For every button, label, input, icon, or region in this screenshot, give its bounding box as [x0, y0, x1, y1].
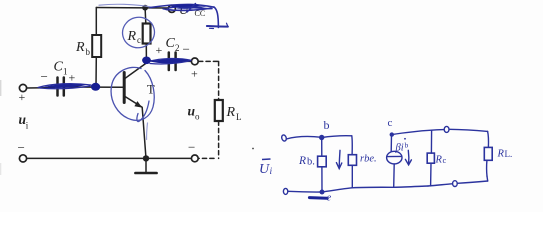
svg-text:C: C — [166, 36, 176, 51]
svg-text:b.: b. — [307, 157, 315, 168]
svg-text:R: R — [435, 155, 443, 166]
svg-text:+: + — [156, 43, 163, 57]
svg-text:c: c — [137, 35, 141, 45]
svg-text:+: + — [191, 67, 198, 81]
svg-text:+: + — [69, 71, 76, 85]
svg-text:o: o — [195, 112, 200, 122]
svg-text:−: − — [183, 42, 190, 57]
svg-text:2: 2 — [175, 43, 180, 53]
svg-text:−: − — [41, 69, 48, 84]
svg-text:R: R — [497, 149, 505, 160]
svg-text:−: − — [18, 140, 25, 155]
svg-text:−: − — [188, 140, 195, 155]
svg-text:C: C — [54, 60, 64, 75]
svg-text:L.: L. — [505, 149, 513, 159]
svg-text:βi: βi — [395, 143, 404, 154]
svg-text:1: 1 — [63, 67, 68, 77]
svg-text:b: b — [86, 47, 91, 57]
svg-text:+: + — [19, 90, 26, 104]
svg-text:b: b — [324, 118, 330, 132]
svg-text:b: b — [405, 141, 409, 150]
svg-text:R: R — [226, 105, 236, 120]
svg-text:R: R — [298, 155, 306, 167]
svg-text:c: c — [443, 155, 447, 165]
svg-text:U: U — [259, 162, 270, 177]
svg-text:i: i — [270, 167, 273, 177]
svg-text:R: R — [127, 29, 137, 44]
svg-text:R: R — [75, 40, 85, 55]
svg-text:c: c — [388, 117, 393, 129]
svg-text:e: e — [327, 193, 332, 204]
svg-text:rbe.: rbe. — [360, 154, 377, 165]
svg-text:i: i — [26, 121, 29, 131]
svg-text:L: L — [236, 112, 242, 122]
